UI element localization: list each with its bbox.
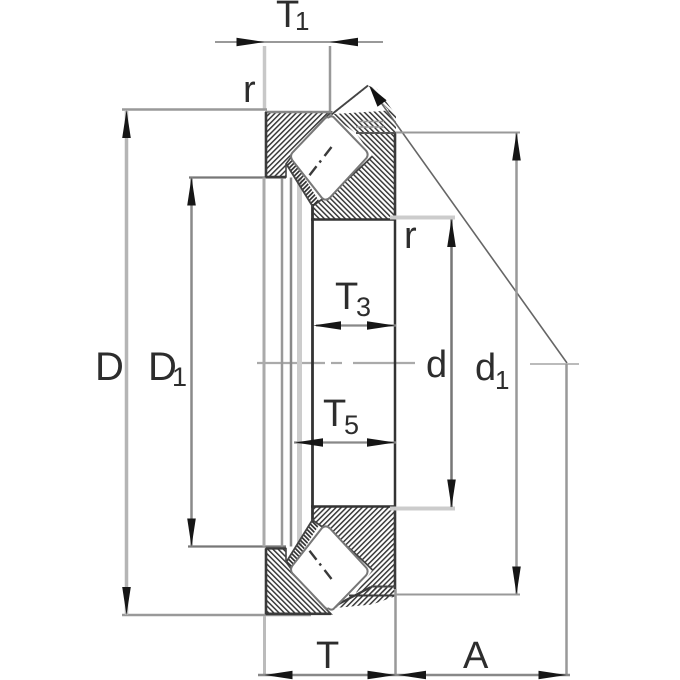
dimension line T3	[316, 324, 396, 326]
housing washer upper	[266, 112, 331, 177]
cage strip upper	[286, 158, 319, 207]
load line	[372, 90, 567, 363]
dimension line D1	[190, 178, 193, 547]
arrow T5 left	[295, 438, 323, 447]
housing washer lower	[266, 549, 331, 615]
arrow T5 right	[367, 438, 395, 447]
extension line T1 left	[263, 46, 267, 109]
svg-text:T: T	[316, 635, 339, 677]
cage rim white tip	[334, 87, 390, 114]
extension line d bottom	[390, 507, 455, 511]
dimension line T and A	[258, 674, 570, 677]
svg-text:d: d	[475, 347, 496, 389]
shaft washer bore edge line	[311, 204, 314, 522]
extension line D1 bottom	[188, 545, 286, 547]
axis tick at pressure centre	[530, 363, 579, 365]
cage band upper	[331, 86, 396, 134]
extension line d1 top	[396, 132, 520, 134]
extension line D top	[122, 108, 267, 111]
dimension line D	[125, 110, 129, 615]
svg-text:T: T	[323, 393, 346, 435]
dimension line T1	[215, 41, 383, 43]
bore silhouette line b	[290, 178, 293, 547]
cage strip lower	[286, 519, 319, 568]
extension line T left bottom	[263, 616, 266, 676]
front face silhouette line	[263, 178, 266, 547]
extension line A right	[565, 364, 568, 676]
arrow T1 left	[237, 38, 265, 47]
centre axis line	[257, 362, 415, 364]
svg-text:1: 1	[295, 6, 309, 36]
svg-text:T: T	[335, 276, 358, 318]
bore silhouette line a	[281, 178, 284, 547]
arrow T bottom right	[368, 671, 396, 680]
cage blob lower	[330, 587, 396, 609]
extension line T right bottom	[394, 589, 397, 676]
extension line T1 right	[329, 46, 332, 118]
svg-text:r: r	[243, 69, 256, 111]
svg-text:D: D	[95, 345, 124, 389]
roller lower	[291, 526, 368, 609]
roller axis dash-dot	[310, 147, 332, 175]
arrow d1 top	[512, 133, 521, 161]
load line arrowhead	[370, 87, 387, 107]
extension line D1 top	[189, 176, 286, 178]
arrow A right	[539, 671, 567, 680]
arrow A left	[398, 671, 426, 680]
dimension line T5	[294, 441, 396, 443]
shaft washer lower	[311, 507, 396, 593]
arrow d1 bottom	[512, 567, 521, 595]
svg-text:A: A	[463, 635, 489, 677]
arrow T bottom left	[265, 671, 293, 680]
extension line d top	[390, 216, 455, 220]
arrow d top	[447, 219, 456, 247]
arrow d bottom	[447, 480, 456, 508]
roller axis dash-dot lower	[310, 551, 332, 579]
arrow D top	[122, 110, 131, 138]
shaft washer back face silhouette	[394, 220, 397, 507]
arrow D bottom	[122, 587, 131, 615]
svg-text:d: d	[426, 344, 447, 386]
shaft washer upper	[311, 133, 396, 220]
svg-text:r: r	[404, 215, 417, 257]
dimension line d	[450, 220, 453, 508]
extension line D bottom	[122, 614, 311, 617]
svg-text:1: 1	[495, 365, 509, 395]
roller upper	[291, 116, 368, 199]
svg-text:5: 5	[344, 410, 359, 440]
extension line d1 bottom	[396, 594, 520, 596]
svg-text:1: 1	[172, 362, 187, 392]
arrow T3 right	[367, 321, 395, 330]
arrow D1 top	[187, 178, 196, 206]
bore silhouette line c	[297, 178, 302, 547]
dimension line d1	[515, 133, 518, 595]
svg-text:3: 3	[356, 292, 371, 322]
arrow T3 left	[313, 321, 341, 330]
arrow D1 bottom	[187, 519, 196, 547]
arrow T1 right	[330, 38, 358, 47]
